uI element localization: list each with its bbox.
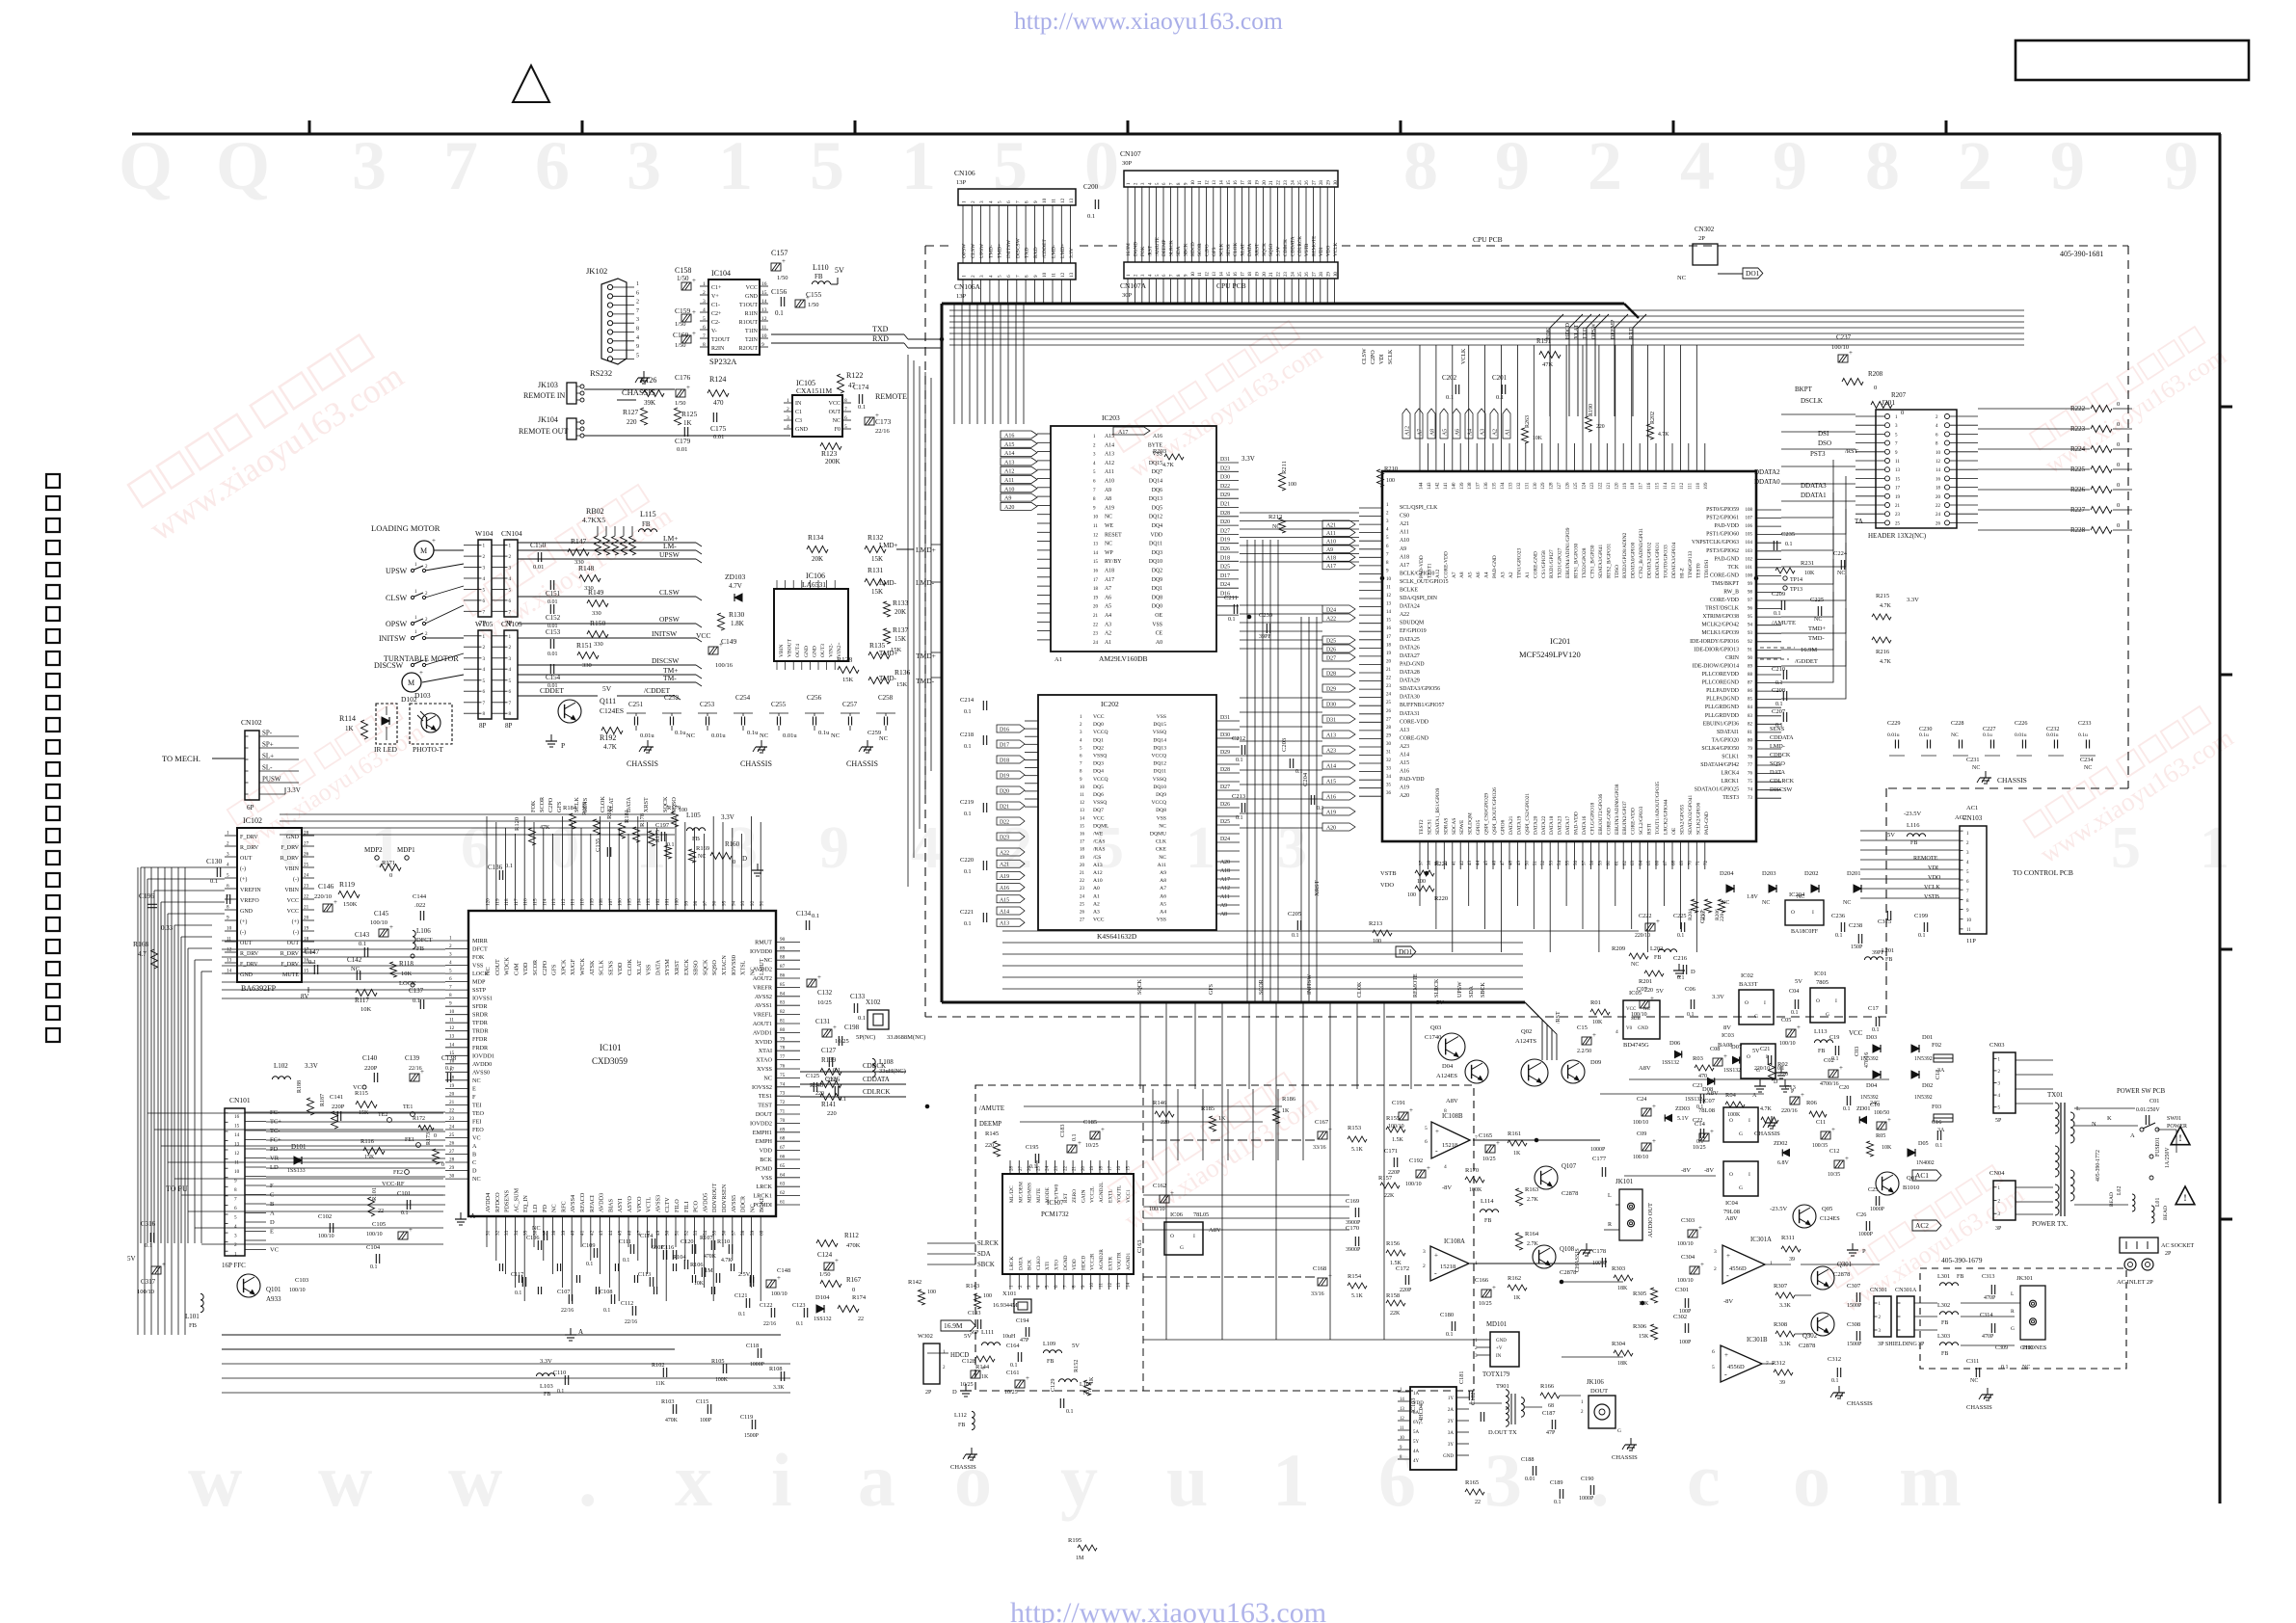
svg-text:RS232: RS232 (590, 368, 612, 378)
svg-text:40: 40 (571, 1230, 576, 1236)
svg-text:FB: FB (1484, 1218, 1491, 1224)
wire bus CPU top area (949, 309, 2024, 311)
svg-text:114: 114 (542, 898, 547, 906)
svg-text:2.7K: 2.7K (1527, 1241, 1539, 1247)
svg-text:47K: 47K (1542, 361, 1554, 368)
svg-text:SCLK: SCLK (1218, 243, 1224, 256)
svg-text:8: 8 (449, 993, 452, 998)
svg-text:26: 26 (1305, 272, 1310, 277)
opamp IC108B (1431, 1122, 1470, 1158)
svg-text:L112: L112 (954, 1412, 967, 1419)
svg-text:L103: L103 (540, 1383, 553, 1390)
svg-text:63: 63 (1631, 861, 1636, 866)
svg-text:R166: R166 (1540, 1383, 1555, 1390)
svg-text:6A: 6A (1413, 1411, 1420, 1416)
opamp IC108A (1430, 1246, 1469, 1281)
svg-text:1SS133: 1SS133 (287, 1168, 306, 1174)
svg-text:6: 6 (1006, 200, 1012, 203)
svg-text:0.1u: 0.1u (2078, 732, 2088, 738)
svg-text:R216: R216 (1876, 649, 1890, 655)
svg-text:R190: R190 (1589, 404, 1594, 416)
svg-text:11: 11 (761, 325, 767, 331)
svg-text:2P: 2P (925, 1390, 932, 1396)
svg-text:9: 9 (1033, 200, 1039, 203)
svg-text:+: + (1700, 1261, 1704, 1268)
svg-text:C203: C203 (1281, 738, 1288, 752)
svg-text:DQ10: DQ10 (1153, 785, 1166, 790)
svg-text:JK103: JK103 (538, 381, 558, 389)
svg-text:5: 5 (703, 316, 706, 322)
svg-text:CORE-VDD: CORE-VDD (1443, 551, 1449, 578)
svg-text:SDRAS: SDRAS (1443, 818, 1449, 835)
svg-text:SDATAI4/GPI42: SDATAI4/GPI42 (1700, 762, 1739, 768)
svg-text:TE2: TE2 (378, 1112, 387, 1118)
svg-text:C216: C216 (1673, 955, 1688, 962)
watermark pink rotated right-mid (2020, 701, 2238, 869)
svg-text:330: 330 (582, 662, 592, 669)
svg-text:2: 2 (703, 290, 706, 296)
svg-text:Q101: Q101 (266, 1286, 281, 1293)
svg-text:0.1: 0.1 (1677, 933, 1684, 939)
svg-text:71: 71 (780, 1109, 786, 1115)
svg-text:28: 28 (304, 831, 309, 837)
test points TE2 TE1 R172 (387, 1118, 392, 1123)
svg-text:7: 7 (1015, 275, 1021, 278)
svg-text:FB: FB (189, 1322, 198, 1329)
svg-text:L302: L302 (1937, 1302, 1950, 1309)
IC201 right pin stubs (1756, 509, 1781, 511)
svg-text:PST2/GPIO61: PST2/GPIO61 (1706, 516, 1739, 521)
svg-text:SP232A: SP232A (709, 357, 737, 366)
svg-text:SCLK2/GPIO6: SCLK2/GPIO6 (1695, 802, 1701, 835)
svg-text:2: 2 (787, 407, 789, 412)
svg-text:AC_SUM: AC_SUM (513, 1187, 520, 1212)
svg-text:VSTB: VSTB (1304, 243, 1310, 256)
svg-text:FOK: FOK (472, 954, 485, 961)
svg-text:DQ2: DQ2 (1152, 569, 1162, 574)
wire TXD RXD to CPU (771, 333, 904, 335)
svg-text:2: 2 (971, 200, 976, 203)
svg-text:AVSS5: AVSS5 (731, 1195, 737, 1212)
svg-text:C234: C234 (2080, 757, 2093, 763)
svg-text:R125: R125 (681, 410, 698, 418)
svg-text:10: 10 (1191, 180, 1196, 185)
svg-text:IOVSS2: IOVSS2 (752, 1084, 772, 1091)
svg-text:4: 4 (483, 576, 486, 582)
svg-text:B: B (270, 1201, 275, 1208)
svg-text:SBCK: SBCK (977, 1262, 995, 1268)
svg-text:D24: D24 (1220, 837, 1230, 842)
bead L01 (2151, 1206, 2154, 1223)
svg-text:HI-Z: HI-Z (1679, 568, 1685, 578)
svg-text:220: 220 (827, 1110, 837, 1117)
svg-text:12: 12 (1060, 272, 1066, 278)
resistor R303 (1614, 1275, 1633, 1281)
svg-text:A6: A6 (1455, 429, 1461, 436)
svg-text:Q03: Q03 (1430, 1024, 1441, 1031)
svg-text:10K: 10K (1592, 1020, 1603, 1025)
svg-text:C227: C227 (1983, 726, 1995, 732)
svg-text:0.1: 0.1 (1236, 815, 1243, 821)
svg-text:8: 8 (483, 711, 486, 717)
svg-text:405-390-1679: 405-390-1679 (1941, 1256, 1983, 1264)
svg-text:2: 2 (1714, 1266, 1717, 1272)
capacitor C174 (858, 394, 860, 404)
svg-text:LMD-: LMD- (879, 579, 897, 587)
svg-text:99: 99 (1748, 582, 1753, 587)
svg-text:C1-: C1- (711, 303, 720, 308)
svg-text:23: 23 (1895, 513, 1901, 518)
resistor R153 (1348, 1136, 1367, 1142)
svg-text:Q107: Q107 (1562, 1163, 1577, 1170)
test point FE2 (405, 1170, 410, 1175)
connector W302 (923, 1344, 940, 1384)
svg-text:D09: D09 (1590, 1059, 1601, 1066)
svg-text:DQ11: DQ11 (1149, 542, 1162, 547)
svg-text:A10: A10 (1093, 878, 1103, 884)
svg-text:VDO: VDO (1380, 882, 1394, 889)
svg-text:111: 111 (571, 898, 576, 906)
svg-text:96: 96 (1748, 607, 1753, 612)
svg-text:11: 11 (1052, 273, 1057, 278)
svg-text:(+): (+) (292, 918, 299, 925)
svg-text:RB02: RB02 (586, 507, 604, 516)
junction dots scattered (940, 337, 944, 341)
svg-text:A12: A12 (1105, 461, 1114, 466)
svg-text:PDSENS: PDSENS (504, 1189, 511, 1212)
svg-text:A18: A18 (1220, 868, 1230, 874)
svg-text:144: 144 (1420, 482, 1425, 490)
svg-text:30P: 30P (1122, 160, 1133, 167)
svg-text:X101: X101 (1002, 1290, 1016, 1297)
svg-text:DQ7: DQ7 (1152, 469, 1162, 475)
svg-text:9: 9 (1033, 275, 1039, 278)
svg-text:VDD: VDD (1413, 1401, 1424, 1406)
svg-text:0.1: 0.1 (1696, 1139, 1703, 1145)
svg-text:136: 136 (1484, 482, 1489, 490)
resistor bank above IC101 R120 R184 R183 R182 R181 R178 R179 R175 R169 (529, 828, 536, 845)
svg-text:10K: 10K (401, 971, 413, 977)
svg-text:AVSS1: AVSS1 (755, 1002, 772, 1009)
svg-text:Q: Q (119, 127, 173, 204)
svg-text:R139: R139 (821, 1056, 837, 1064)
svg-text:30: 30 (449, 1174, 455, 1180)
svg-text:IR LED: IR LED (374, 745, 398, 754)
diode bridge D04 D02 (1873, 1071, 1881, 1078)
svg-text:O: O (1729, 1118, 1733, 1124)
svg-text:115: 115 (1656, 482, 1661, 490)
svg-text:117: 117 (514, 898, 520, 906)
svg-text:D01: D01 (1922, 1034, 1933, 1041)
svg-text:C136: C136 (488, 864, 503, 871)
resistor R305 (1651, 1288, 1658, 1303)
svg-text:23: 23 (1284, 272, 1289, 277)
inductor L201 (1864, 957, 1882, 960)
svg-text:115: 115 (533, 898, 539, 906)
svg-text:61: 61 (1615, 861, 1619, 866)
svg-text:73: 73 (780, 1091, 786, 1097)
svg-text:18: 18 (1080, 848, 1085, 853)
svg-text:27: 27 (1386, 717, 1392, 722)
svg-text:A9: A9 (1400, 546, 1406, 552)
svg-text:45: 45 (618, 1230, 624, 1236)
svg-text:22/16: 22/16 (409, 1066, 422, 1072)
svg-text:DATA16: DATA16 (1582, 815, 1588, 835)
svg-text:11: 11 (227, 937, 231, 943)
svg-text:C303: C303 (1681, 1217, 1695, 1224)
svg-text:4: 4 (509, 576, 512, 582)
svg-text:+: + (1797, 1024, 1801, 1031)
svg-text:DATA18: DATA18 (1549, 815, 1555, 835)
svg-text:DATA31: DATA31 (1400, 711, 1420, 717)
svg-text:A3: A3 (1105, 622, 1111, 627)
svg-text:0.1: 0.1 (1087, 213, 1095, 220)
svg-text:R115: R115 (355, 1090, 368, 1097)
svg-text:Q301: Q301 (1837, 1262, 1852, 1268)
svg-text:13: 13 (449, 1034, 455, 1040)
wire left edge cpu verticals (907, 355, 909, 887)
sdram bottom address tags (997, 848, 1025, 856)
svg-text:17: 17 (1386, 635, 1392, 640)
svg-text:D27: D27 (1220, 528, 1230, 534)
svg-text:19: 19 (1386, 652, 1392, 656)
svg-text:CORE-GND: CORE-GND (1400, 735, 1428, 741)
svg-text:(-): (-) (293, 876, 299, 883)
svg-text:24: 24 (1386, 693, 1392, 698)
switch SW01 POWER (2140, 1128, 2144, 1131)
svg-text:UPSW: UPSW (1457, 981, 1463, 998)
svg-text:R127: R127 (623, 408, 639, 416)
svg-text:R101: R101 (371, 1187, 378, 1201)
svg-text:A2: A2 (1093, 901, 1100, 907)
inductor L115 (638, 529, 656, 532)
regulator IC05 BD4745G (1623, 1000, 1660, 1039)
svg-text:CN101: CN101 (229, 1096, 251, 1104)
svg-text:C119: C119 (740, 1414, 753, 1421)
svg-text:NC: NC (833, 418, 841, 424)
svg-text:IC01: IC01 (1814, 971, 1827, 977)
svg-text:0.1: 0.1 (796, 1321, 803, 1327)
svg-text:17: 17 (1241, 180, 1246, 185)
resistor R213 (1373, 930, 1392, 936)
svg-text:A0: A0 (1093, 886, 1100, 891)
svg-text:87: 87 (1748, 681, 1753, 686)
svg-text:DFCT: DFCT (472, 946, 488, 953)
svg-text:C105: C105 (372, 1221, 386, 1228)
svg-text:100/10: 100/10 (318, 1234, 334, 1239)
svg-text:7: 7 (234, 1197, 237, 1203)
svg-text:C144: C144 (413, 893, 427, 900)
svg-text:TES1: TES1 (759, 1093, 772, 1100)
svg-text:50: 50 (1525, 861, 1530, 866)
svg-text:8: 8 (1403, 127, 1438, 204)
svg-text:R151: R151 (576, 641, 593, 650)
svg-text:A9: A9 (1220, 903, 1227, 909)
svg-text:25: 25 (1298, 180, 1303, 185)
svg-text:7: 7 (443, 127, 478, 204)
svg-text:R164: R164 (1525, 1231, 1539, 1237)
wire horizontals cpu bottom area (1002, 942, 1523, 944)
svg-text:74: 74 (780, 1081, 786, 1087)
svg-text:QSPI_DOUT/GPIO26: QSPI_DOUT/GPIO26 (1492, 787, 1498, 835)
svg-text:100: 100 (983, 1293, 992, 1299)
svg-text:C12: C12 (1829, 1148, 1839, 1155)
svg-text:R157: R157 (1378, 1175, 1393, 1182)
svg-text:IOVSS1: IOVSS1 (472, 996, 493, 1002)
svg-text:R140: R140 (810, 1082, 823, 1089)
svg-text:98: 98 (1748, 591, 1753, 596)
svg-text:1: 1 (234, 1252, 237, 1258)
svg-text:V+: V+ (711, 294, 719, 300)
svg-text:0.1u: 0.1u (818, 730, 830, 736)
svg-text:78: 78 (1748, 756, 1753, 760)
svg-text:220: 220 (1161, 1120, 1169, 1126)
svg-text:FB: FB (692, 836, 701, 842)
switch CLSW (411, 596, 414, 599)
svg-text:R203: R203 (1153, 448, 1166, 455)
capacitor C155 (795, 300, 805, 307)
svg-text:ML/I2C: ML/I2C (1009, 1185, 1015, 1203)
svg-text:R211: R211 (1281, 461, 1288, 474)
svg-text:114: 114 (1664, 482, 1669, 490)
svg-text:VBIN: VBIN (779, 645, 785, 657)
svg-text:BEAD: BEAD (2163, 1206, 2169, 1220)
svg-text:22: 22 (304, 894, 309, 900)
svg-text:1000P: 1000P (750, 1362, 764, 1368)
svg-text:A10: A10 (1004, 487, 1014, 492)
svg-text:100: 100 (1386, 478, 1395, 484)
svg-text:49: 49 (655, 1230, 661, 1236)
svg-text:3: 3 (979, 275, 985, 278)
svg-text:XUGF: XUGF (570, 959, 576, 975)
svg-text:77: 77 (780, 1054, 786, 1060)
svg-text:C124: C124 (817, 1251, 833, 1259)
svg-text:0.01: 0.01 (1525, 1477, 1535, 1482)
watermark pink rotated center-top (1109, 315, 1327, 484)
svg-text:NC: NC (1105, 542, 1112, 547)
wire vertical bundle cpu left (1246, 540, 1248, 1002)
svg-text:D29: D29 (1326, 687, 1336, 693)
svg-text:OUT3: OUT3 (820, 644, 826, 657)
svg-text:DDATA0: DDATA0 (1754, 478, 1780, 486)
svg-text:DATA: DATA (626, 796, 632, 812)
svg-text:60: 60 (760, 1230, 765, 1236)
svg-text:6: 6 (234, 1206, 237, 1211)
svg-text:BCK: BCK (1028, 1260, 1033, 1270)
svg-text:3: 3 (627, 127, 661, 204)
svg-text:0: 0 (2117, 441, 2120, 448)
svg-text:O: O (1745, 1000, 1749, 1006)
svg-text:3: 3 (449, 952, 452, 958)
svg-text:DATA27: DATA27 (1400, 653, 1420, 659)
svg-text:A9: A9 (1004, 496, 1011, 502)
connector CN107 (1124, 171, 1338, 187)
svg-text:SBCK: SBCK (1183, 243, 1188, 256)
svg-text:1K: 1K (1513, 1295, 1521, 1301)
svg-text:3: 3 (1277, 815, 1307, 881)
svg-text:RFACI: RFACI (589, 1195, 596, 1212)
svg-text:13: 13 (1386, 602, 1392, 607)
svg-text:8: 8 (1025, 200, 1030, 203)
svg-text:TE1: TE1 (403, 1104, 413, 1110)
svg-text:/WE: /WE (1093, 832, 1104, 838)
svg-text:135: 135 (1493, 482, 1498, 490)
svg-text:D22: D22 (1000, 820, 1009, 826)
svg-text:19: 19 (304, 926, 309, 932)
svg-text:C191: C191 (1392, 1100, 1405, 1106)
svg-text:A18: A18 (1105, 569, 1114, 574)
regulator IC02 BA33T (1739, 990, 1774, 1024)
svg-text:CPU PCB: CPU PCB (1473, 235, 1503, 244)
svg-text:3Y: 3Y (1448, 1443, 1455, 1448)
svg-text:SDATAO2/GPO41: SDATAO2/GPO41 (1688, 794, 1694, 835)
svg-text:1500P: 1500P (744, 1433, 759, 1439)
inductor L109 (1043, 1350, 1061, 1353)
svg-text:0.1: 0.1 (1936, 1143, 1942, 1149)
resistor R190 (1586, 416, 1592, 432)
flash IC203 AM29LV160DB (1051, 426, 1216, 652)
svg-text:22: 22 (1093, 623, 1099, 627)
svg-text:MODE: MODE (1045, 1186, 1051, 1203)
svg-text:-: - (1724, 1370, 1727, 1378)
svg-text:R135: R135 (869, 641, 886, 650)
svg-text:PST3/GPIO62: PST3/GPIO62 (1706, 548, 1739, 554)
svg-text:470K: 470K (846, 1242, 861, 1249)
svg-text:10/25: 10/25 (817, 999, 832, 1006)
svg-text:21: 21 (1080, 871, 1085, 876)
svg-text:AC INLET 2P: AC INLET 2P (2117, 1279, 2153, 1286)
svg-text:SP-: SP- (262, 730, 273, 737)
svg-text:26: 26 (449, 1141, 455, 1147)
svg-text:CN301: CN301 (1870, 1287, 1887, 1293)
svg-text:TXD1/GPO27: TXD1/GPO27 (1558, 547, 1563, 578)
svg-text:4: 4 (1680, 127, 1715, 204)
wire W105-CN105 (464, 635, 478, 637)
svg-text:20: 20 (1080, 864, 1085, 868)
svg-text:6: 6 (1425, 1139, 1428, 1145)
svg-text:DDATA1: DDATA1 (1801, 492, 1827, 499)
svg-text:2: 2 (234, 1242, 237, 1248)
svg-text:0.1u: 0.1u (1983, 732, 1992, 738)
svg-text:6: 6 (461, 815, 491, 881)
svg-text:C314: C314 (1980, 1312, 1992, 1318)
resistor R154 (1348, 1283, 1367, 1289)
svg-text:HEADER 13X2(NC): HEADER 13X2(NC) (1868, 532, 1927, 540)
svg-text:(-): (-) (240, 929, 246, 936)
svg-text:LMD+: LMD+ (879, 542, 898, 549)
svg-text:7: 7 (1015, 200, 1021, 203)
svg-text:D26: D26 (1220, 546, 1230, 552)
svg-text:TDI/DSI: TDI/DSI (1704, 560, 1710, 578)
svg-text:100: 100 (675, 898, 681, 906)
svg-text:C233: C233 (2078, 720, 2091, 727)
svg-text:100: 100 (1407, 892, 1416, 898)
svg-text:DATA: DATA (1770, 769, 1786, 776)
svg-text:32: 32 (1386, 758, 1392, 763)
svg-text:1: 1 (962, 200, 968, 203)
svg-text:AC SOCKET: AC SOCKET (2161, 1242, 2194, 1249)
svg-text:C161: C161 (1006, 1370, 1019, 1376)
svg-text:R102: R102 (652, 1362, 664, 1369)
svg-text:100/35: 100/35 (1812, 1143, 1828, 1149)
svg-text:A11: A11 (1105, 469, 1114, 475)
opamp IC301A (1722, 1245, 1765, 1284)
resistor R202 (1647, 424, 1654, 439)
svg-text:L109: L109 (1043, 1341, 1055, 1347)
svg-text:TOUT0/GPO33: TOUT0/GPO33 (1664, 545, 1669, 578)
svg-text:W302: W302 (918, 1333, 933, 1340)
svg-text:0.1: 0.1 (1072, 1134, 1078, 1142)
